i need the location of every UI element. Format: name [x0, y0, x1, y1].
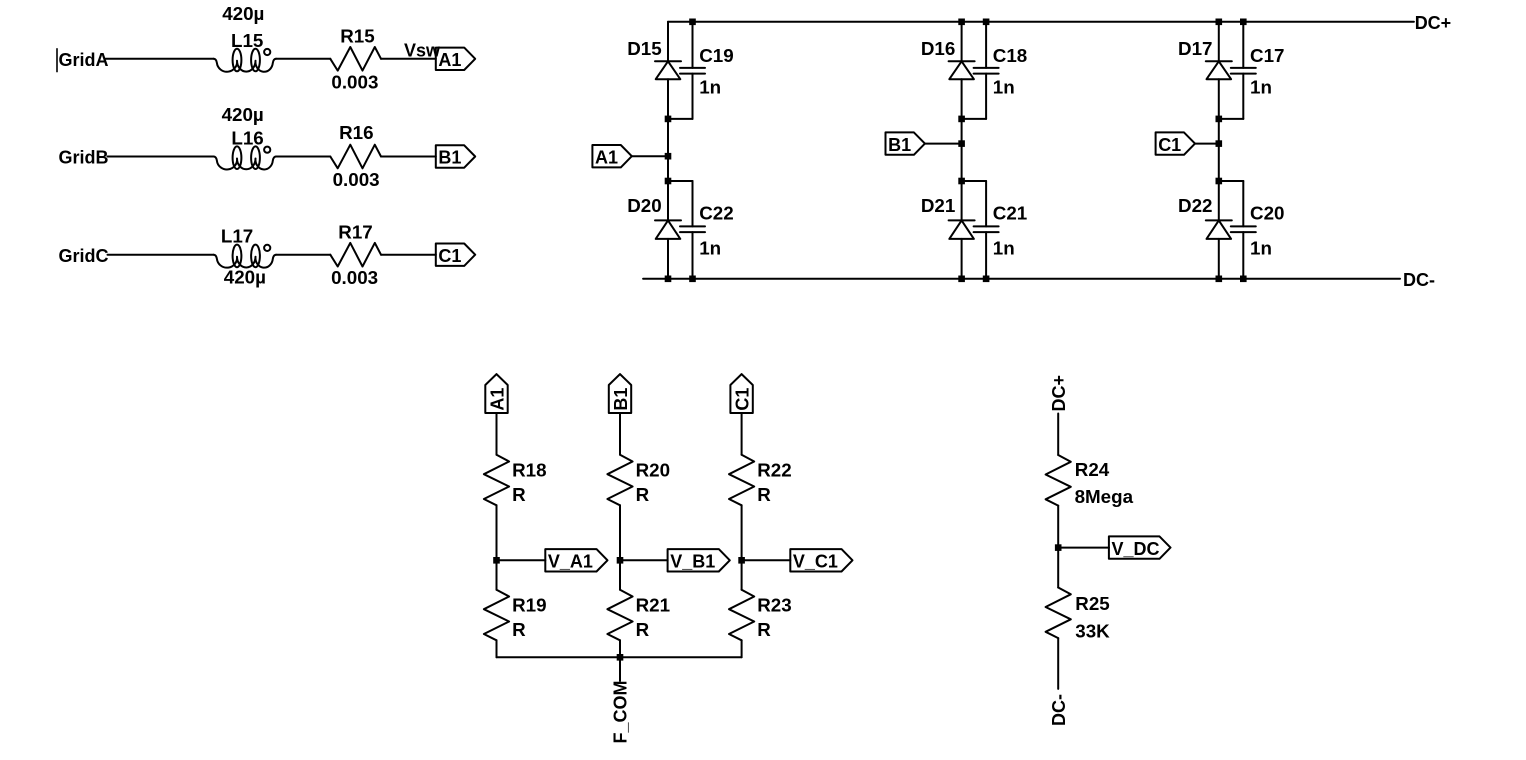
svg-text:R16: R16	[339, 122, 373, 143]
junction	[983, 276, 990, 283]
diode D16	[949, 60, 975, 62]
svg-text:B1: B1	[611, 388, 631, 411]
svg-text:R: R	[636, 484, 650, 505]
svg-text:0.003: 0.003	[331, 267, 378, 288]
wire	[496, 413, 498, 455]
svg-text:D17: D17	[1178, 38, 1212, 59]
wire	[1242, 74, 1244, 119]
wire	[692, 74, 694, 119]
wire	[985, 181, 987, 226]
svg-text:DC-: DC-	[1403, 270, 1435, 290]
wire	[381, 58, 436, 60]
wire	[276, 254, 330, 256]
wire	[108, 254, 214, 256]
wire	[381, 156, 436, 158]
junction	[958, 116, 965, 123]
svg-text:C1: C1	[438, 246, 461, 266]
svg-text:B1: B1	[438, 148, 461, 168]
net flag A1	[436, 48, 475, 70]
wire	[667, 22, 669, 62]
resistor R22	[729, 455, 754, 506]
svg-text:C21: C21	[993, 203, 1027, 224]
svg-text:420µ: 420µ	[222, 104, 264, 125]
junction	[1216, 140, 1223, 147]
wire DC- bottom rail	[643, 278, 1400, 280]
junction	[689, 276, 696, 283]
svg-text:DC+: DC+	[1049, 375, 1069, 412]
svg-text:R22: R22	[757, 460, 791, 481]
wire	[619, 640, 621, 657]
svg-text:GridB: GridB	[59, 148, 109, 168]
wire	[961, 239, 963, 279]
net flag A1	[592, 145, 631, 167]
wire	[1242, 181, 1244, 226]
diode D20	[655, 219, 681, 221]
svg-text:R19: R19	[512, 594, 546, 615]
svg-text:C1: C1	[1158, 135, 1181, 155]
wire	[925, 143, 962, 145]
junction	[617, 557, 624, 564]
wire	[1057, 414, 1059, 456]
svg-text:1n: 1n	[699, 77, 721, 98]
junction	[1216, 276, 1223, 283]
wire	[742, 559, 791, 561]
svg-text:GridC: GridC	[59, 246, 109, 266]
svg-text:C20: C20	[1250, 203, 1284, 224]
svg-text:R: R	[512, 619, 526, 640]
inductor L16	[214, 157, 276, 170]
net flag V_C1	[790, 549, 852, 571]
wire	[1218, 22, 1220, 62]
wire	[741, 640, 743, 657]
svg-text:V_DC: V_DC	[1112, 539, 1160, 559]
junction	[617, 654, 624, 661]
svg-text:L17: L17	[221, 225, 253, 246]
junction	[983, 19, 990, 26]
svg-text:33K: 33K	[1075, 621, 1110, 642]
wire	[1218, 79, 1220, 220]
inductor L15	[214, 59, 276, 72]
resistor R25	[1046, 588, 1071, 639]
wire	[496, 560, 498, 589]
wire	[741, 505, 743, 560]
svg-text:C22: C22	[699, 203, 733, 224]
wire	[668, 180, 693, 182]
diode D15	[655, 60, 681, 62]
wire	[276, 156, 330, 158]
capacitor C20	[1231, 225, 1256, 227]
svg-text:GridA: GridA	[59, 50, 109, 70]
wire	[962, 180, 987, 182]
wire	[619, 413, 621, 455]
wire	[985, 232, 987, 279]
svg-text:1n: 1n	[993, 77, 1015, 98]
wire	[667, 239, 669, 279]
junction	[958, 19, 965, 26]
wire	[1218, 239, 1220, 279]
net flag C1	[1156, 132, 1195, 154]
wire	[108, 156, 214, 158]
wire	[1219, 118, 1244, 120]
svg-text:D15: D15	[627, 38, 661, 59]
svg-text:R: R	[512, 484, 526, 505]
junction	[689, 19, 696, 26]
svg-text:1n: 1n	[699, 238, 721, 259]
svg-text:R18: R18	[512, 460, 546, 481]
wire	[1057, 548, 1059, 588]
wire	[619, 505, 621, 560]
svg-text:C18: C18	[993, 45, 1027, 66]
wire	[381, 254, 436, 256]
wire	[632, 155, 668, 157]
wire	[496, 505, 498, 560]
svg-text:R20: R20	[636, 460, 670, 481]
wire	[962, 118, 987, 120]
svg-text:D16: D16	[921, 38, 955, 59]
junction	[1240, 19, 1247, 26]
svg-text:L16: L16	[231, 128, 263, 149]
wire	[692, 181, 694, 226]
svg-text:420µ: 420µ	[222, 3, 264, 24]
resistor R17	[330, 243, 381, 267]
junction	[1216, 116, 1223, 123]
svg-text:R21: R21	[636, 594, 670, 615]
net flag V_DC	[1109, 536, 1171, 558]
wire	[985, 22, 987, 68]
svg-text:C17: C17	[1250, 45, 1284, 66]
wire	[741, 413, 743, 455]
net flag V_B1	[668, 549, 730, 571]
wire	[1057, 506, 1059, 548]
wire	[1058, 547, 1109, 549]
svg-text:R24: R24	[1075, 459, 1110, 480]
capacitor C22	[680, 225, 705, 227]
resistor R18	[484, 455, 509, 506]
svg-text:DC+: DC+	[1415, 13, 1452, 33]
wire	[668, 118, 693, 120]
svg-text:R: R	[757, 484, 771, 505]
junction	[738, 557, 745, 564]
junction	[1216, 19, 1223, 26]
svg-text:L15: L15	[231, 30, 263, 51]
net flag A1	[485, 374, 507, 413]
svg-text:0.003: 0.003	[333, 169, 380, 190]
svg-text:8Mega: 8Mega	[1075, 486, 1134, 507]
wire	[1242, 22, 1244, 68]
junction	[958, 140, 965, 147]
svg-text:V_B1: V_B1	[670, 552, 715, 572]
wire	[961, 79, 963, 220]
capacitor C18	[974, 67, 999, 69]
net flag B1	[436, 145, 475, 167]
wire	[961, 22, 963, 62]
junction	[1216, 178, 1223, 185]
svg-text:A1: A1	[487, 388, 507, 411]
wire	[692, 22, 694, 68]
junction	[665, 153, 672, 160]
svg-text:420µ: 420µ	[224, 266, 266, 287]
junction	[665, 178, 672, 185]
wire F_COM rail	[497, 656, 742, 658]
svg-text:R: R	[757, 619, 771, 640]
svg-text:V_C1: V_C1	[793, 552, 838, 572]
wire	[1195, 143, 1219, 145]
junction	[493, 557, 500, 564]
resistor R20	[607, 455, 632, 506]
junction	[958, 178, 965, 185]
resistor R21	[607, 590, 632, 641]
wire	[667, 79, 669, 220]
svg-text:0.003: 0.003	[331, 72, 378, 93]
wire	[619, 560, 621, 589]
diode D22	[1206, 219, 1232, 221]
net flag C1	[730, 374, 752, 413]
resistor R15	[330, 47, 381, 71]
svg-text:DC-: DC-	[1049, 694, 1069, 726]
junction	[1240, 276, 1247, 283]
svg-text:F_COM: F_COM	[610, 681, 630, 744]
wire	[741, 560, 743, 589]
resistor R16	[330, 145, 381, 169]
diode D17	[1206, 60, 1232, 62]
wire	[1219, 180, 1244, 182]
svg-text:A1: A1	[438, 50, 461, 70]
resistor R19	[484, 590, 509, 641]
svg-text:R17: R17	[338, 222, 372, 243]
svg-text:R15: R15	[340, 25, 374, 46]
wire	[496, 640, 498, 657]
diode D21	[949, 219, 975, 221]
svg-text:V_A1: V_A1	[548, 552, 593, 572]
junction	[958, 276, 965, 283]
wire	[497, 559, 546, 561]
wire	[620, 559, 668, 561]
wire	[106, 58, 214, 60]
junction	[665, 116, 672, 123]
svg-text:D21: D21	[921, 195, 955, 216]
svg-text:R: R	[636, 619, 650, 640]
net flag B1	[886, 132, 925, 154]
wire stub tick at GridA	[56, 49, 58, 72]
capacitor C17	[1231, 67, 1256, 69]
capacitor C19	[680, 67, 705, 69]
svg-text:1n: 1n	[1250, 238, 1272, 259]
svg-text:C1: C1	[733, 388, 753, 411]
resistor R24	[1046, 455, 1071, 506]
svg-text:D20: D20	[627, 195, 661, 216]
resistor R23	[729, 590, 754, 641]
svg-text:1n: 1n	[993, 238, 1015, 259]
junction	[665, 276, 672, 283]
svg-text:R23: R23	[757, 594, 791, 615]
wire DC+ top rail	[668, 21, 1414, 23]
svg-text:1n: 1n	[1250, 77, 1272, 98]
wire	[619, 657, 621, 681]
wire	[1242, 232, 1244, 279]
svg-text:D22: D22	[1178, 195, 1212, 216]
svg-text:B1: B1	[888, 135, 911, 155]
svg-text:C19: C19	[699, 45, 733, 66]
wire	[692, 232, 694, 279]
inductor L17	[214, 255, 276, 268]
net flag B1	[609, 374, 631, 413]
wire	[985, 74, 987, 119]
junction	[1055, 544, 1062, 551]
net flag V_A1	[545, 549, 607, 571]
svg-text:R25: R25	[1075, 593, 1109, 614]
wire	[276, 58, 330, 60]
wire	[1057, 638, 1059, 689]
capacitor C21	[974, 225, 999, 227]
net flag C1	[436, 244, 475, 266]
svg-text:A1: A1	[595, 147, 618, 167]
